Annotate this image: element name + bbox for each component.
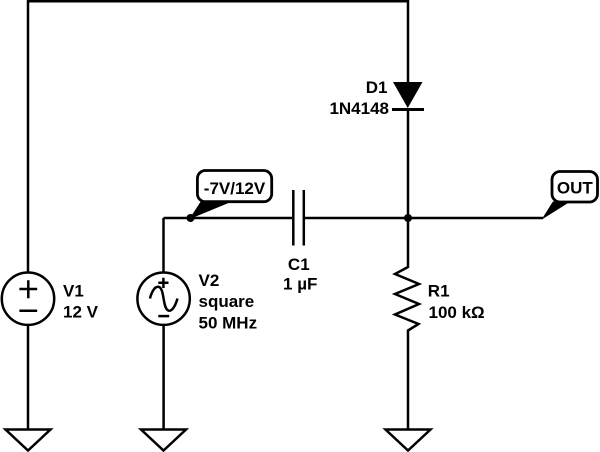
svg-text:R1: R1 — [428, 281, 450, 300]
svg-text:V1: V1 — [63, 281, 84, 300]
svg-text:C1: C1 — [288, 255, 310, 274]
svg-text:V2: V2 — [199, 271, 220, 290]
svg-text:50 MHz: 50 MHz — [199, 313, 258, 332]
svg-text:100 kΩ: 100 kΩ — [429, 303, 485, 322]
svg-text:OUT: OUT — [557, 179, 594, 198]
svg-text:1N4148: 1N4148 — [329, 99, 389, 118]
svg-text:-7V/12V: -7V/12V — [204, 179, 266, 198]
svg-text:square: square — [199, 292, 255, 311]
svg-text:D1: D1 — [366, 78, 388, 97]
svg-text:1 µF: 1 µF — [283, 274, 317, 293]
svg-text:12 V: 12 V — [63, 303, 99, 322]
